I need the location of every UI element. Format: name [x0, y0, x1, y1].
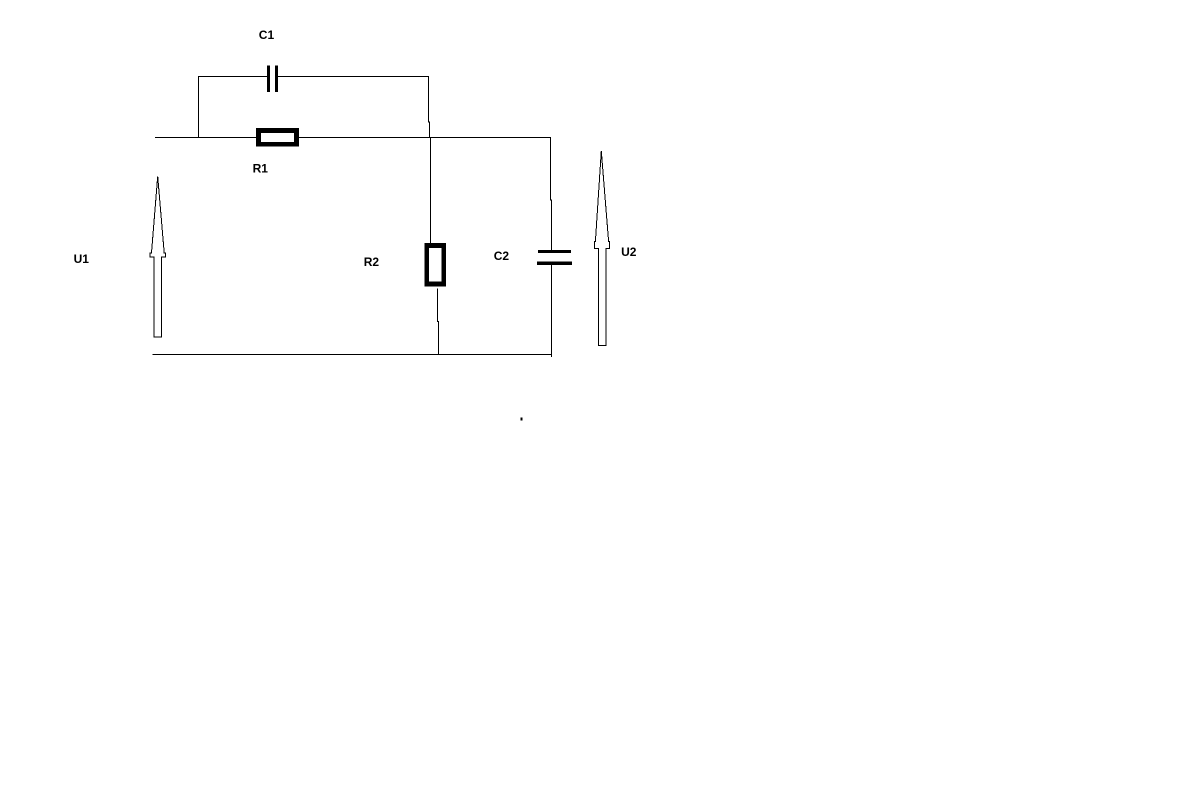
svg-text:C1: C1	[259, 28, 275, 42]
svg-text:U1: U1	[74, 252, 90, 266]
svg-text:U2: U2	[621, 245, 637, 259]
svg-text:C2: C2	[494, 249, 510, 263]
svg-text:R2: R2	[364, 255, 380, 269]
svg-text:R1: R1	[253, 161, 269, 175]
